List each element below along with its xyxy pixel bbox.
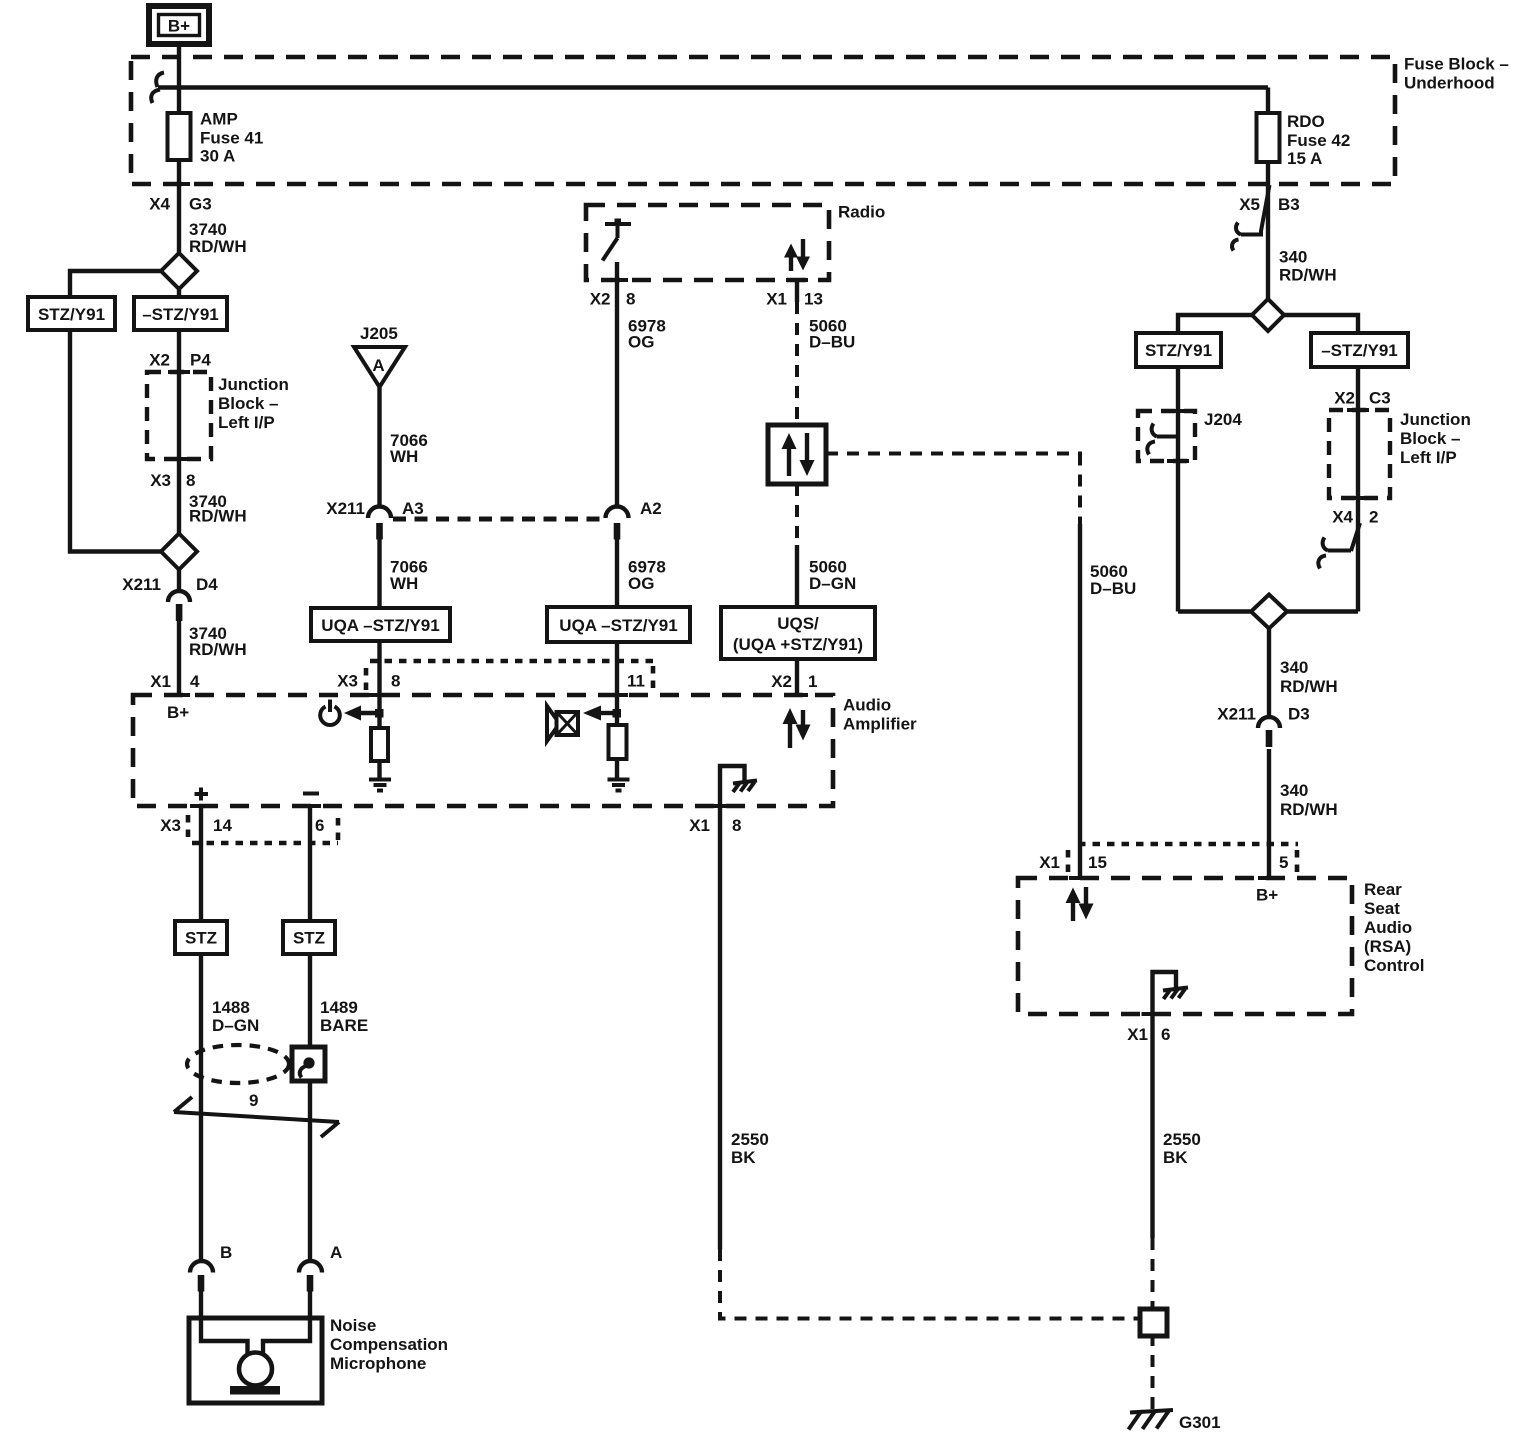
svg-text:A: A bbox=[330, 1243, 342, 1262]
svg-text:X1: X1 bbox=[150, 672, 171, 691]
svg-text:B+: B+ bbox=[168, 17, 190, 36]
svg-text:Compensation: Compensation bbox=[330, 1335, 448, 1354]
svg-text:BK: BK bbox=[731, 1148, 756, 1167]
svg-text:(UQA +STZ/Y91): (UQA +STZ/Y91) bbox=[733, 635, 863, 654]
svg-text:RD/WH: RD/WH bbox=[1280, 800, 1338, 819]
svg-text:Block –: Block – bbox=[218, 394, 278, 413]
svg-text:UQA –STZ/Y91: UQA –STZ/Y91 bbox=[321, 616, 439, 635]
svg-text:STZ: STZ bbox=[293, 929, 325, 948]
svg-text:RD/WH: RD/WH bbox=[189, 237, 247, 256]
svg-text:13: 13 bbox=[804, 290, 823, 309]
svg-text:Fuse Block –: Fuse Block – bbox=[1404, 55, 1509, 74]
svg-text:Fuse 41: Fuse 41 bbox=[200, 129, 263, 148]
svg-text:A3: A3 bbox=[402, 499, 424, 518]
svg-text:P4: P4 bbox=[190, 351, 211, 370]
svg-text:Audio: Audio bbox=[843, 696, 891, 715]
svg-text:X2: X2 bbox=[771, 672, 792, 691]
svg-text:X211: X211 bbox=[1217, 705, 1256, 724]
svg-text:X4: X4 bbox=[149, 195, 170, 214]
svg-text:Audio: Audio bbox=[1364, 918, 1412, 937]
svg-text:X5: X5 bbox=[1239, 195, 1260, 214]
svg-text:WH: WH bbox=[390, 447, 418, 466]
svg-text:Amplifier: Amplifier bbox=[843, 715, 917, 734]
svg-text:X211: X211 bbox=[326, 499, 365, 518]
svg-text:Underhood: Underhood bbox=[1404, 74, 1495, 93]
svg-text:STZ/Y91: STZ/Y91 bbox=[1145, 341, 1212, 360]
svg-text:6: 6 bbox=[315, 816, 324, 835]
svg-text:8: 8 bbox=[626, 290, 635, 309]
svg-text:X1: X1 bbox=[1127, 1025, 1148, 1044]
svg-text:J205: J205 bbox=[360, 324, 398, 343]
svg-text:AMP: AMP bbox=[200, 110, 238, 129]
svg-text:D–BU: D–BU bbox=[809, 333, 855, 352]
svg-text:Fuse 42: Fuse 42 bbox=[1287, 131, 1350, 150]
svg-text:B: B bbox=[220, 1243, 232, 1262]
svg-text:15: 15 bbox=[1088, 853, 1107, 872]
svg-text:RDO: RDO bbox=[1287, 112, 1325, 131]
svg-text:X2: X2 bbox=[149, 351, 170, 370]
svg-text:Block –: Block – bbox=[1400, 429, 1460, 448]
svg-text:5: 5 bbox=[1279, 853, 1288, 872]
svg-text:D4: D4 bbox=[196, 575, 218, 594]
svg-text:4: 4 bbox=[190, 672, 200, 691]
svg-text:D3: D3 bbox=[1288, 705, 1310, 724]
svg-text:15 A: 15 A bbox=[1287, 149, 1322, 168]
svg-text:2550: 2550 bbox=[1163, 1130, 1201, 1149]
svg-text:340: 340 bbox=[1279, 248, 1307, 267]
svg-text:X211: X211 bbox=[122, 575, 161, 594]
svg-text:J204: J204 bbox=[1204, 410, 1242, 429]
svg-text:D–BU: D–BU bbox=[1090, 579, 1136, 598]
svg-text:B+: B+ bbox=[167, 703, 189, 722]
svg-text:9: 9 bbox=[249, 1091, 258, 1110]
svg-text:RD/WH: RD/WH bbox=[189, 507, 247, 526]
svg-text:340: 340 bbox=[1280, 658, 1308, 677]
svg-text:STZ: STZ bbox=[185, 929, 217, 948]
svg-text:X1: X1 bbox=[766, 290, 787, 309]
svg-text:Seat: Seat bbox=[1364, 899, 1400, 918]
svg-text:1: 1 bbox=[808, 672, 817, 691]
svg-text:Left I/P: Left I/P bbox=[1400, 448, 1457, 467]
svg-text:14: 14 bbox=[213, 816, 232, 835]
svg-text:11: 11 bbox=[627, 672, 645, 691]
svg-text:X3: X3 bbox=[337, 672, 358, 691]
svg-text:UQA –STZ/Y91: UQA –STZ/Y91 bbox=[559, 616, 677, 635]
svg-text:8: 8 bbox=[732, 816, 741, 835]
svg-text:1489: 1489 bbox=[320, 998, 358, 1017]
svg-text:Noise: Noise bbox=[330, 1316, 376, 1335]
svg-text:X2: X2 bbox=[1334, 389, 1355, 408]
svg-text:STZ/Y91: STZ/Y91 bbox=[38, 305, 105, 324]
svg-text:X2: X2 bbox=[590, 290, 611, 309]
svg-text:G301: G301 bbox=[1179, 1413, 1221, 1432]
svg-text:1488: 1488 bbox=[212, 998, 250, 1017]
svg-text:A: A bbox=[372, 356, 384, 375]
svg-text:RD/WH: RD/WH bbox=[1280, 677, 1338, 696]
svg-text:Junction: Junction bbox=[1400, 410, 1471, 429]
svg-text:UQS/: UQS/ bbox=[777, 614, 819, 633]
svg-text:(RSA): (RSA) bbox=[1364, 937, 1411, 956]
svg-text:Radio: Radio bbox=[838, 203, 885, 222]
svg-text:X3: X3 bbox=[160, 816, 181, 835]
svg-text:340: 340 bbox=[1280, 781, 1308, 800]
svg-text:8: 8 bbox=[391, 672, 400, 691]
svg-text:6: 6 bbox=[1161, 1025, 1170, 1044]
svg-text:RD/WH: RD/WH bbox=[189, 640, 247, 659]
svg-text:B3: B3 bbox=[1278, 195, 1300, 214]
svg-text:BK: BK bbox=[1163, 1148, 1188, 1167]
svg-text:Junction: Junction bbox=[218, 375, 289, 394]
svg-text:X3: X3 bbox=[150, 471, 171, 490]
svg-text:X4: X4 bbox=[1332, 508, 1353, 527]
svg-text:8: 8 bbox=[186, 471, 195, 490]
svg-text:Rear: Rear bbox=[1364, 880, 1402, 899]
svg-text:D–GN: D–GN bbox=[212, 1016, 259, 1035]
svg-text:2550: 2550 bbox=[731, 1130, 769, 1149]
svg-text:G3: G3 bbox=[189, 195, 212, 214]
svg-text:X1: X1 bbox=[689, 816, 710, 835]
svg-text:B+: B+ bbox=[1256, 886, 1278, 905]
svg-text:–STZ/Y91: –STZ/Y91 bbox=[142, 305, 219, 324]
svg-text:OG: OG bbox=[628, 574, 654, 593]
svg-text:2: 2 bbox=[1369, 508, 1378, 527]
svg-text:X1: X1 bbox=[1039, 853, 1060, 872]
svg-text:Microphone: Microphone bbox=[330, 1354, 426, 1373]
svg-text:D–GN: D–GN bbox=[809, 574, 856, 593]
svg-text:30 A: 30 A bbox=[200, 147, 235, 166]
svg-text:Control: Control bbox=[1364, 956, 1424, 975]
svg-text:BARE: BARE bbox=[320, 1016, 368, 1035]
svg-text:RD/WH: RD/WH bbox=[1279, 266, 1337, 285]
svg-text:–STZ/Y91: –STZ/Y91 bbox=[1321, 341, 1398, 360]
svg-text:Left I/P: Left I/P bbox=[218, 413, 275, 432]
svg-text:OG: OG bbox=[628, 333, 654, 352]
svg-text:WH: WH bbox=[390, 574, 418, 593]
svg-text:C3: C3 bbox=[1369, 389, 1391, 408]
svg-text:A2: A2 bbox=[640, 499, 662, 518]
